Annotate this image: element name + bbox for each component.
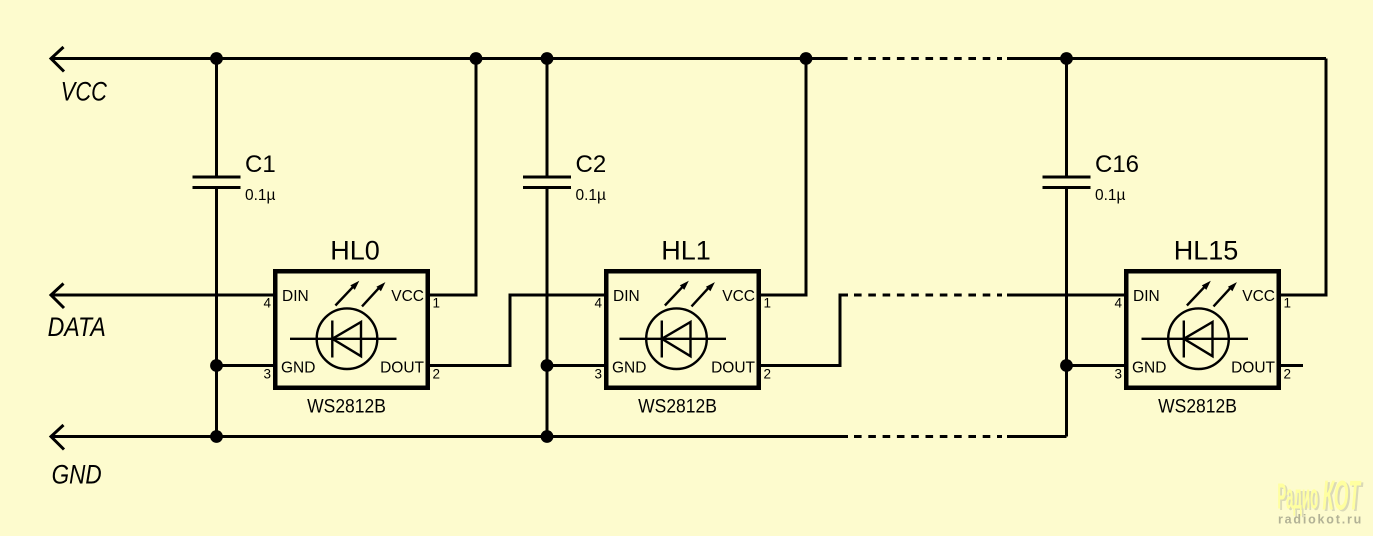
- svg-text:4: 4: [263, 296, 271, 311]
- svg-text:0.1µ: 0.1µ: [245, 187, 276, 204]
- HL15 LED emission arrowheads: [1202, 281, 1211, 290]
- wire HL0 VCC pin to VCC bus: [430, 59, 476, 296]
- svg-text:DOUT: DOUT: [1231, 360, 1275, 377]
- junction GND/C1: [210, 430, 223, 443]
- junction VCC/C1: [210, 52, 223, 65]
- svg-text:DATA: DATA: [48, 313, 106, 343]
- svg-text:4: 4: [1114, 296, 1122, 311]
- svg-text:1: 1: [433, 296, 441, 311]
- svg-text:3: 3: [594, 367, 602, 382]
- svg-text:GND: GND: [1132, 360, 1166, 377]
- C16 bottom plate: [1043, 186, 1091, 189]
- wire C2 bottom lead: [546, 188, 549, 437]
- svg-text:0.1µ: 0.1µ: [1095, 187, 1126, 204]
- wire C2 top lead: [546, 59, 549, 178]
- wire HL0 DOUT to HL1 DIN: [430, 295, 604, 366]
- junction GND/C2: [541, 430, 554, 443]
- wire C16 bottom lead: [1065, 188, 1068, 437]
- svg-text:VCC: VCC: [1242, 288, 1275, 305]
- junction VCC/C16: [1060, 52, 1073, 65]
- wire GND bus with left arrow: [51, 425, 1067, 450]
- C16 top plate: [1043, 176, 1091, 179]
- svg-text:3: 3: [1114, 367, 1122, 382]
- watermark Радио КОТ radiokot.ru: [1277, 472, 1364, 526]
- LED HL1 (WS2812B): [594, 236, 771, 417]
- C2 top plate: [523, 176, 571, 179]
- svg-text:C1: C1: [245, 151, 276, 178]
- wire C1 bottom lead: [215, 188, 218, 437]
- HL0 LED symbol: [290, 285, 397, 369]
- wire HL1 GND pin to C2: [547, 364, 604, 367]
- svg-text:DIN: DIN: [1133, 288, 1160, 305]
- C1 top plate: [193, 176, 241, 179]
- svg-text:VCC: VCC: [61, 77, 108, 106]
- junction VCC/HL1: [800, 52, 813, 65]
- svg-text:GND: GND: [52, 461, 102, 490]
- svg-text:radiokot.ru: radiokot.ru: [1278, 513, 1363, 527]
- svg-text:1: 1: [1284, 296, 1292, 311]
- svg-text:DIN: DIN: [282, 288, 309, 305]
- HL1 LED symbol: [620, 285, 727, 369]
- C1 bottom plate: [193, 186, 241, 189]
- HL0 body outline: [275, 271, 428, 388]
- wire C1 top lead: [215, 59, 218, 178]
- junction VCC/HL0: [470, 52, 483, 65]
- svg-text:1: 1: [764, 296, 772, 311]
- HL15 LED symbol: [1142, 285, 1249, 369]
- svg-text:2: 2: [1284, 367, 1292, 382]
- capacitor C16: [1043, 59, 1140, 437]
- wire HL1 VCC pin to VCC bus: [760, 59, 806, 296]
- svg-text:WS2812B: WS2812B: [307, 395, 386, 417]
- HL1 body outline: [606, 271, 759, 388]
- svg-text:GND: GND: [281, 360, 315, 377]
- wire HL0 GND pin to C1: [217, 364, 274, 367]
- junction C16/HL15 GND: [1060, 359, 1073, 372]
- wire C16 top lead: [1065, 59, 1068, 178]
- svg-text:C2: C2: [576, 151, 607, 178]
- wire HL15 DOUT stub: [1280, 364, 1303, 367]
- svg-text:0.1µ: 0.1µ: [576, 187, 607, 204]
- svg-text:HL0: HL0: [330, 236, 380, 266]
- svg-text:DOUT: DOUT: [380, 360, 424, 377]
- LED HL0 (WS2812B): [263, 236, 440, 417]
- wire DATA bus with left arrow: [51, 284, 273, 309]
- capacitor C2: [523, 59, 606, 437]
- capacitor C1: [193, 59, 276, 437]
- junction VCC/C2: [541, 52, 554, 65]
- svg-text:4: 4: [594, 296, 602, 311]
- svg-text:DOUT: DOUT: [711, 360, 755, 377]
- HL15 body outline: [1126, 271, 1279, 388]
- HL1 LED emission arrowheads: [680, 281, 689, 290]
- svg-text:Радио: Радио: [1277, 475, 1318, 516]
- svg-text:HL15: HL15: [1174, 236, 1239, 266]
- svg-text:GND: GND: [612, 360, 646, 377]
- svg-text:2: 2: [433, 367, 441, 382]
- svg-text:HL1: HL1: [661, 236, 711, 266]
- wire HL15 GND pin to C16: [1067, 364, 1125, 367]
- svg-text:WS2812B: WS2812B: [638, 395, 717, 417]
- svg-text:C16: C16: [1095, 151, 1139, 178]
- svg-text:VCC: VCC: [722, 288, 755, 305]
- HL0 LED emission arrowheads: [350, 281, 359, 290]
- junction C2/HL1 GND: [541, 359, 554, 372]
- LED HL15 (WS2812B): [1114, 236, 1291, 417]
- svg-text:DIN: DIN: [613, 288, 640, 305]
- svg-text:2: 2: [764, 367, 772, 382]
- wire HL1 DOUT toward HL15: [760, 295, 1124, 366]
- svg-text:VCC: VCC: [391, 288, 424, 305]
- svg-text:3: 3: [263, 367, 271, 382]
- wire HL15 VCC pin to VCC bus: [1280, 59, 1326, 296]
- wire VCC bus with left arrow: [51, 47, 1326, 72]
- junction C1/HL0 GND: [210, 359, 223, 372]
- C2 bottom plate: [523, 186, 571, 189]
- svg-text:WS2812B: WS2812B: [1158, 395, 1237, 417]
